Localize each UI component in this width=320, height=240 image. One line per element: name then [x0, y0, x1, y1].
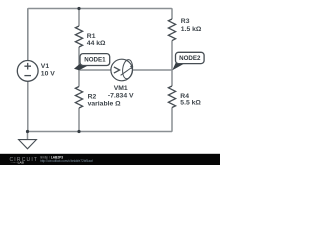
- svg-text:V1: V1: [41, 63, 50, 70]
- svg-text:R3: R3: [181, 18, 190, 25]
- svg-text:5.5 kΩ: 5.5 kΩ: [180, 100, 201, 107]
- svg-text:-7.834 V: -7.834 V: [108, 93, 134, 100]
- svg-text:http://circuitlab.com/c/bnkkfe: http://circuitlab.com/c/bnkkfe72bf5aaf: [40, 159, 93, 163]
- svg-text:R1: R1: [87, 33, 96, 40]
- svg-text:NODE2: NODE2: [179, 55, 201, 62]
- svg-text:variable Ω: variable Ω: [88, 101, 122, 108]
- svg-text:R2: R2: [88, 93, 97, 100]
- svg-text:1.5 kΩ: 1.5 kΩ: [181, 26, 202, 33]
- svg-text:VM1: VM1: [114, 85, 128, 92]
- svg-text:44 kΩ: 44 kΩ: [87, 40, 106, 47]
- svg-text:10 V: 10 V: [41, 70, 55, 77]
- svg-text:NODE1: NODE1: [84, 56, 106, 63]
- svg-text:—▪—LAB: —▪—LAB: [11, 160, 25, 164]
